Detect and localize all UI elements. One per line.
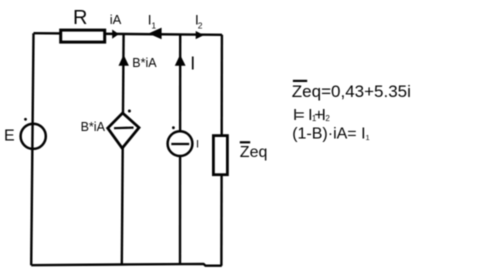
resistor R	[61, 30, 105, 42]
bar inside current source	[171, 143, 189, 145]
svg-text:I=I1+I2: I=I1+I2	[293, 107, 331, 124]
terminal dot of current source	[172, 126, 175, 129]
svg-text:B*iA: B*iA	[132, 56, 157, 70]
wire: left vertical branch (E branch)	[31, 33, 33, 265]
svg-text:I: I	[196, 138, 199, 150]
arrow I2 (right)	[196, 31, 204, 39]
svg-text:I: I	[190, 54, 195, 74]
terminal dot of dependent source	[128, 110, 131, 113]
voltage source E (circle)	[21, 124, 46, 149]
terminal dot of E	[24, 118, 27, 121]
arrow I1 (left)	[148, 28, 161, 40]
wire: top horizontal bus	[34, 33, 223, 35]
svg-text:B*iA: B*iA	[81, 120, 106, 134]
equation overline on Zeq	[293, 80, 307, 82]
wire: Zeq vertical branch	[220, 35, 223, 266]
label Zeq overline	[240, 141, 250, 143]
svg-text:Zeq: Zeq	[240, 144, 268, 161]
svg-text:Zeq=0,43+5.35i: Zeq=0,43+5.35i	[292, 82, 411, 101]
svg-text:E: E	[4, 128, 15, 145]
wire: I source vertical branch	[179, 34, 182, 264]
wire: bottom horizontal bus	[31, 264, 222, 266]
arrow I branch current (up)	[175, 55, 186, 66]
svg-text:R: R	[73, 7, 87, 29]
wire: B*iA vertical branch	[122, 34, 124, 264]
impedance Zeq (rectangle)	[213, 136, 227, 175]
svg-text:2: 2	[198, 21, 203, 31]
svg-text:1: 1	[151, 21, 156, 31]
svg-text:(1-B)·iA= I1: (1-B)·iA= I1	[292, 126, 370, 143]
svg-text:iA: iA	[110, 12, 122, 27]
dependent source B*iA (diamond)	[108, 113, 139, 148]
current source I (circle)	[168, 131, 193, 156]
arrow B*iA branch current (up)	[119, 55, 129, 66]
bar inside dependent source	[114, 126, 134, 129]
arrow iA (right)	[112, 30, 119, 39]
